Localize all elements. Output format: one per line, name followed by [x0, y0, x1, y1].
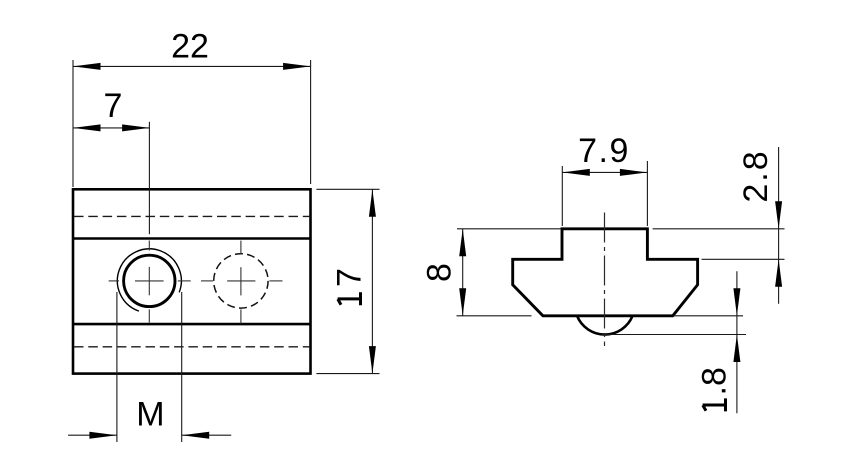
dimension 7.9 arrow right — [620, 169, 648, 176]
svg-text:7: 7 — [104, 87, 123, 125]
dimension 7 arrow right — [122, 124, 150, 131]
dimension 2.8 arrow lower — [775, 259, 782, 287]
counterbore hole dashed circle — [214, 254, 268, 308]
spring ball bump arc — [577, 316, 633, 335]
dimension 1.8 arrow lower — [733, 335, 740, 363]
dimension 17 extension line top — [316, 188, 379, 190]
dimension 17 arrow top — [369, 189, 376, 217]
dimension 22 extension line right — [310, 60, 312, 184]
dimension 7 extension line right / hole centerline — [148, 122, 150, 234]
svg-text:7: 7 — [331, 268, 369, 287]
dimension 8 extension line top — [457, 228, 561, 230]
hole centerline vertical — [148, 241, 150, 323]
dimension 8 line — [462, 229, 464, 316]
dimension 2.8 line — [778, 147, 780, 304]
hidden edge dashed line bottom — [74, 346, 310, 348]
dimension 17 extension line bottom — [316, 373, 379, 375]
dimension 22 arrow left — [73, 63, 101, 70]
dimension 8 arrow bottom — [459, 288, 466, 316]
dimension 2.8 extension line bottom — [702, 258, 785, 260]
dimension text 17 — [331, 268, 369, 305]
counterbore centerline vertical — [240, 241, 242, 324]
dimension 8 arrow top — [459, 229, 466, 256]
counterbore centerline horizontal — [201, 280, 283, 282]
svg-text:7.9: 7.9 — [578, 132, 630, 170]
dimension 22 arrow right — [283, 63, 311, 70]
svg-text:.8: .8 — [696, 367, 734, 395]
dimension 1.8 extension line top — [673, 315, 743, 317]
dimension 22 extension line left — [72, 60, 74, 187]
threaded hole circle — [124, 255, 175, 306]
dimension M line right — [182, 434, 232, 436]
dimension 7 arrow left — [73, 124, 101, 131]
svg-text:22: 22 — [171, 28, 209, 66]
thread arc — [117, 249, 181, 311]
dimension 2.8 extension line top — [653, 228, 785, 230]
dimension 1.8 arrow upper — [733, 288, 740, 316]
dimension M extension line right — [181, 292, 183, 442]
dimension M arrow left — [89, 432, 117, 439]
dimension 17 arrow bottom — [369, 346, 376, 374]
svg-text:8: 8 — [421, 263, 459, 282]
dimension 8 extension line bottom — [457, 315, 532, 317]
profile centerline dash-dot — [604, 213, 606, 347]
top groove edge line — [73, 237, 311, 240]
dimension M line left — [68, 434, 117, 436]
dimension 1.8 extension line bottom — [602, 334, 746, 336]
dimension 7.9 line — [562, 171, 647, 173]
dimension 17 line — [371, 189, 373, 373]
svg-text:M: M — [136, 396, 164, 434]
dimension text 8 — [421, 263, 459, 282]
dimension 7 line — [73, 127, 150, 129]
dimension 22 line — [73, 65, 311, 67]
dimension text 1.8 — [696, 367, 734, 411]
bottom groove edge line — [73, 323, 311, 326]
dimension 7.9 extension line right — [646, 161, 648, 226]
dimension text 2.8 — [737, 149, 775, 202]
dimension 7.9 arrow left — [562, 169, 590, 176]
hidden edge dashed line top — [74, 215, 310, 217]
hole centerline horizontal — [109, 280, 191, 282]
dimension M arrow right — [182, 432, 210, 439]
T-profile outline (side view) — [513, 229, 698, 316]
nut body outline (top view) — [73, 189, 311, 373]
dimension 2.8 arrow upper — [775, 201, 782, 229]
dimension 1.8 line — [736, 271, 738, 413]
dimension M extension line left — [116, 292, 118, 442]
dimension 7.9 extension line left — [561, 166, 563, 226]
svg-text:2.8: 2.8 — [737, 149, 775, 202]
